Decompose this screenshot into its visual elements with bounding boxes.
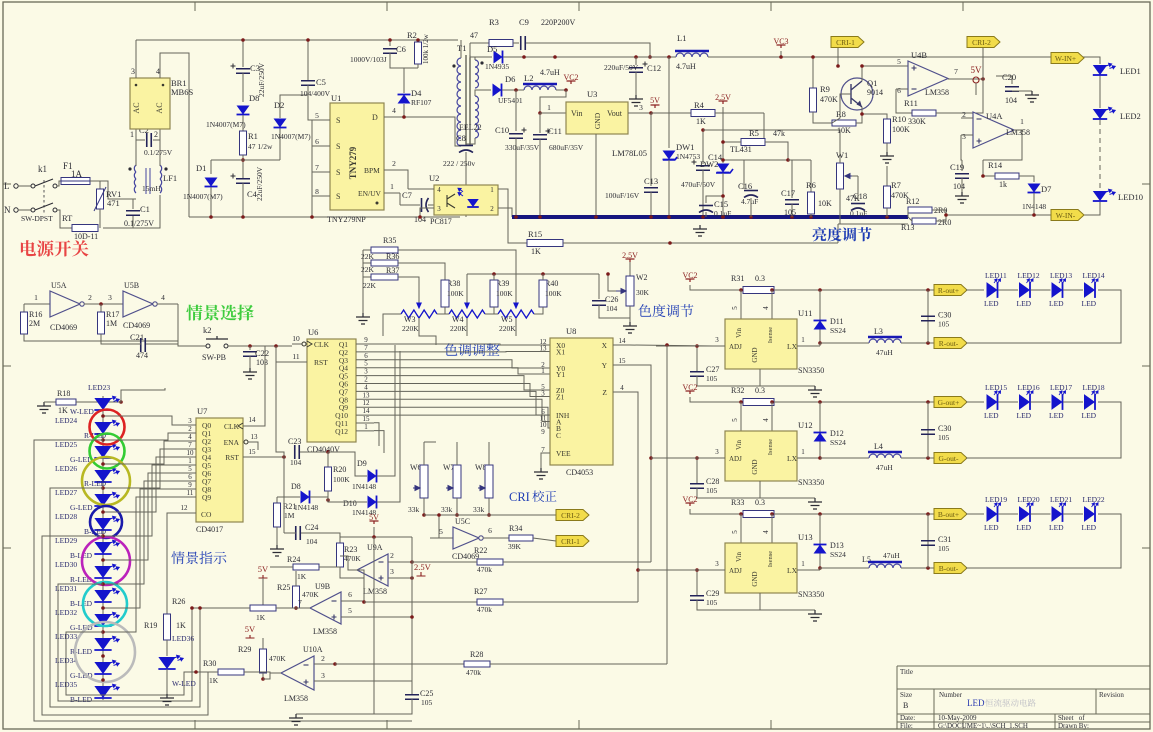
wire C26 down xyxy=(599,305,630,318)
svg-text:3: 3 xyxy=(715,448,719,456)
wire R24 out xyxy=(319,567,340,571)
wire rail to C5 xyxy=(307,40,309,81)
potentiometer W5 xyxy=(498,310,534,318)
svg-text:2M: 2M xyxy=(29,319,40,328)
wire LED11 link xyxy=(998,289,1018,291)
LED LED30 arrows xyxy=(109,563,119,572)
secondary ground bus xyxy=(512,215,908,219)
svg-text:VC2: VC2 xyxy=(682,271,697,280)
wire L3 to R-out- xyxy=(901,342,934,344)
wire W1 wiper out xyxy=(852,175,858,177)
wire R20 to D10 xyxy=(328,500,367,502)
svg-text:5: 5 xyxy=(897,57,901,66)
junction xyxy=(667,215,671,219)
wire R38 to pots xyxy=(444,307,446,314)
junction xyxy=(818,512,822,516)
svg-text:CRI-1: CRI-1 xyxy=(836,38,855,47)
junction xyxy=(306,38,310,42)
wire D13 branch xyxy=(819,514,821,570)
wire D2 to C5 node xyxy=(280,95,308,118)
svg-text:LED: LED xyxy=(984,411,999,420)
svg-text:10D-11: 10D-11 xyxy=(74,232,98,241)
junction chain tap xyxy=(101,510,105,514)
junction xyxy=(944,213,948,217)
svg-text:CO: CO xyxy=(201,510,212,519)
svg-text:47uH: 47uH xyxy=(883,551,900,560)
svg-text:U8: U8 xyxy=(566,326,576,336)
svg-text:UF5401: UF5401 xyxy=(498,96,523,105)
wire to R26 xyxy=(200,607,250,609)
svg-text:LED24: LED24 xyxy=(55,416,77,425)
svg-text:4: 4 xyxy=(762,418,770,422)
svg-text:TL431: TL431 xyxy=(730,145,752,154)
power 2.5V ref xyxy=(719,101,728,104)
op-amp U9A signs xyxy=(379,561,384,563)
svg-text:Isense: Isense xyxy=(767,551,774,567)
capacitor C15 xyxy=(699,205,713,207)
svg-text:104: 104 xyxy=(606,304,618,313)
wire BR1 minus to bottom rail xyxy=(160,53,189,217)
svg-text:C7: C7 xyxy=(402,190,412,200)
zener DW1 xyxy=(663,151,676,160)
capacitor C13 xyxy=(644,188,658,193)
junction xyxy=(885,215,889,219)
wire gnd to R18 xyxy=(44,401,56,403)
resistor R15 xyxy=(527,240,563,247)
svg-text:B-LED: B-LED xyxy=(70,695,93,704)
svg-text:R1: R1 xyxy=(248,131,258,141)
svg-text:R19: R19 xyxy=(144,621,157,630)
wire to C16 xyxy=(743,160,745,189)
svg-text:R32: R32 xyxy=(731,386,744,395)
svg-text:5: 5 xyxy=(731,530,739,534)
LED LED26 arrows xyxy=(109,467,119,476)
svg-text:SN3350: SN3350 xyxy=(798,590,824,599)
svg-text:LED17: LED17 xyxy=(1050,383,1072,392)
inverter U5A xyxy=(50,291,80,317)
wire U7 Q4 xyxy=(186,456,196,458)
diode D7 xyxy=(1028,184,1041,193)
junction xyxy=(636,568,640,572)
svg-text:470k: 470k xyxy=(477,605,492,614)
capacitor C7 xyxy=(421,198,423,212)
wire C1 to N rail xyxy=(132,216,134,228)
wire 2.5V ref xyxy=(722,107,724,142)
wire U7 Q2 xyxy=(186,440,196,442)
svg-text:R11: R11 xyxy=(904,98,918,108)
svg-text:U9A: U9A xyxy=(367,543,383,552)
wire U8 X to U11 ADJ xyxy=(630,345,713,346)
junction xyxy=(721,215,725,219)
svg-text:R22: R22 xyxy=(474,546,487,555)
counter U7 CD4017 xyxy=(196,418,243,522)
svg-text:Q9: Q9 xyxy=(202,493,211,502)
capacitor C12 xyxy=(629,68,643,73)
wire LX to L4 xyxy=(820,457,869,459)
svg-text:GND: GND xyxy=(751,347,759,362)
wire rail to C3 xyxy=(242,40,244,67)
LED LED2 arrows xyxy=(1105,106,1115,115)
svg-text:3: 3 xyxy=(131,67,135,76)
wire chain tap to U7 xyxy=(103,473,186,560)
svg-text:100K: 100K xyxy=(496,289,513,298)
op-amp U4A xyxy=(973,112,1014,148)
wire R3 to C9 xyxy=(513,42,519,44)
svg-text:G-out-: G-out- xyxy=(939,454,959,463)
wire U7 Q9 xyxy=(186,496,196,498)
svg-text:4: 4 xyxy=(161,293,165,302)
LED LED31 arrows xyxy=(109,587,119,596)
wire L5 to B-out- xyxy=(901,567,934,569)
svg-text:R17: R17 xyxy=(106,310,119,319)
resistor R21 xyxy=(274,503,281,527)
wire F1 to LF1 xyxy=(90,181,136,199)
op-amp U4B xyxy=(908,61,948,96)
svg-text:1N4753: 1N4753 xyxy=(676,152,700,161)
svg-text:C1: C1 xyxy=(140,204,150,214)
svg-text:104: 104 xyxy=(290,458,302,467)
LED LED28 xyxy=(94,518,111,530)
ground U13 xyxy=(808,610,822,621)
wire k2 to counters xyxy=(275,346,277,446)
wire U7 ENA xyxy=(248,442,258,450)
svg-text:9: 9 xyxy=(364,336,368,344)
wire U6 Q12 xyxy=(356,430,374,432)
potentiometer W2 xyxy=(626,276,634,306)
wire R15 out xyxy=(563,242,838,244)
capacitor C9 xyxy=(521,36,526,50)
svg-text:220uF/50V: 220uF/50V xyxy=(604,63,639,72)
wire LED15 link xyxy=(998,401,1018,403)
wire rail to R2 xyxy=(417,40,419,42)
svg-text:471: 471 xyxy=(107,198,120,208)
svg-text:C5: C5 xyxy=(316,77,326,87)
svg-text:C12: C12 xyxy=(647,63,661,73)
junction xyxy=(739,512,743,516)
svg-text:U9B: U9B xyxy=(315,582,330,591)
wire U9A inv xyxy=(388,561,412,563)
resistor R1 xyxy=(240,131,247,155)
wire BR1 plus to rail xyxy=(135,40,137,78)
svg-text:100K: 100K xyxy=(545,289,562,298)
LED LED25 arrows xyxy=(109,443,119,452)
svg-text:D13: D13 xyxy=(830,541,844,550)
wire R40 to W5 xyxy=(534,307,543,314)
LED LED12 xyxy=(1019,282,1030,298)
diode D10 xyxy=(368,496,377,509)
resistor R23 xyxy=(337,543,344,567)
wire to R15 xyxy=(508,193,527,243)
svg-text:0.3: 0.3 xyxy=(755,386,765,395)
svg-text:5V: 5V xyxy=(245,624,256,634)
svg-text:CLK: CLK xyxy=(224,422,240,431)
inverter U5C xyxy=(453,527,479,549)
svg-text:R15: R15 xyxy=(528,229,542,239)
svg-text:R8: R8 xyxy=(836,109,846,119)
junction xyxy=(248,344,252,348)
svg-text:W1: W1 xyxy=(836,150,848,160)
junction xyxy=(649,215,653,219)
diode D6 xyxy=(493,84,502,97)
op-amp U4B signs xyxy=(912,66,917,71)
resistor R9 xyxy=(810,88,817,112)
wire C19 top xyxy=(961,160,963,171)
svg-text:3: 3 xyxy=(639,103,643,112)
wire U9A noninv xyxy=(388,577,412,579)
wire R36 to R38 xyxy=(398,263,445,280)
svg-text:U11: U11 xyxy=(798,308,812,318)
wire bus U6 to U8 xyxy=(374,344,550,345)
diode D8 xyxy=(237,106,250,115)
svg-text:CRI-2: CRI-2 xyxy=(972,38,991,47)
junction xyxy=(522,55,526,59)
ground C22 xyxy=(243,368,257,379)
wire C24 to R23 xyxy=(301,533,340,543)
caption 色度调节 xyxy=(638,304,693,317)
caption 亮度调节 xyxy=(813,227,872,241)
svg-text:13: 13 xyxy=(363,391,371,399)
counter U6 clk wedge xyxy=(307,341,312,347)
svg-text:474: 474 xyxy=(136,351,148,360)
potentiometer W1 wiper xyxy=(845,174,852,179)
wire D12 branch xyxy=(819,402,821,458)
svg-text:Vin: Vin xyxy=(735,551,743,562)
wire U1 drain xyxy=(384,117,461,146)
wire to C8 xyxy=(466,138,475,144)
wire to R14 xyxy=(983,175,995,177)
junction xyxy=(926,566,930,570)
capacitor C26 xyxy=(592,301,606,306)
svg-text:22uF/250V: 22uF/250V xyxy=(257,62,266,97)
svg-text:4.7uH: 4.7uH xyxy=(676,62,696,71)
svg-text:RST: RST xyxy=(225,453,239,462)
wire U7 Q6 xyxy=(186,472,196,474)
svg-text:2: 2 xyxy=(392,159,396,168)
junction xyxy=(606,272,610,276)
svg-text:105: 105 xyxy=(784,208,796,217)
counter U7 clk wedge xyxy=(238,423,243,429)
wire C27 column xyxy=(696,346,698,372)
svg-text:RF107: RF107 xyxy=(411,98,432,107)
shunt DW2 bar xyxy=(716,169,733,173)
wire DW2 down xyxy=(722,173,724,217)
svg-text:6: 6 xyxy=(897,86,901,95)
junction xyxy=(492,272,496,276)
bridge rectifier BR1 xyxy=(130,78,170,129)
junction xyxy=(695,456,699,460)
svg-text:L2: L2 xyxy=(524,73,533,83)
power 5V bar U9B xyxy=(259,575,268,578)
switch k1 xyxy=(31,184,35,188)
svg-text:LED15: LED15 xyxy=(985,383,1007,392)
LED LED14 arrows xyxy=(1090,276,1099,285)
wire C21 to loop xyxy=(101,341,141,344)
svg-text:C13: C13 xyxy=(644,176,658,186)
svg-text:2: 2 xyxy=(364,376,368,384)
svg-text:100K: 100K xyxy=(447,289,464,298)
port G-out- xyxy=(934,453,967,464)
op-amp U9A xyxy=(357,554,388,586)
LED LED23 arrows xyxy=(109,395,119,404)
svg-text:RST: RST xyxy=(314,358,328,367)
LED LED1 arrows xyxy=(1105,62,1115,71)
op-amp U9B signs xyxy=(332,600,337,602)
svg-text:CD4069: CD4069 xyxy=(123,321,150,330)
capacitor C27 xyxy=(690,372,704,377)
resistor R6 xyxy=(808,192,815,214)
svg-text:2: 2 xyxy=(390,551,394,560)
resistor R16 xyxy=(21,312,28,334)
wire 2.5V to W2 xyxy=(629,262,631,276)
LED LED14 xyxy=(1084,282,1095,298)
wire GND U12 xyxy=(760,481,815,498)
svg-text:100K: 100K xyxy=(892,125,910,134)
svg-text:10K: 10K xyxy=(837,126,851,135)
wire chain tap to U7 xyxy=(103,449,186,488)
wire U1 ENUV xyxy=(384,192,400,194)
svg-text:47 1/2w: 47 1/2w xyxy=(248,142,273,151)
junction chain tap xyxy=(101,462,105,466)
svg-text:L3: L3 xyxy=(874,327,883,336)
wire CRI-1 drop xyxy=(837,46,839,66)
regulator U12 SN3350 xyxy=(725,431,797,481)
capacitor C31 xyxy=(921,541,935,546)
LED LED21 xyxy=(1052,506,1063,522)
wire LF1 to BR1 pin2 xyxy=(159,129,161,166)
LED LED33 xyxy=(94,638,111,650)
junction xyxy=(668,241,672,245)
svg-text:104: 104 xyxy=(1005,96,1017,105)
svg-text:2: 2 xyxy=(490,205,494,213)
svg-text:Drawn By:: Drawn By: xyxy=(1058,722,1089,730)
resistor R35 xyxy=(371,247,398,253)
svg-text:EEL22: EEL22 xyxy=(459,123,482,132)
junction chain tap xyxy=(101,654,105,658)
wire R14 to D7 xyxy=(1019,176,1034,182)
schottky D11 xyxy=(814,321,827,330)
svg-text:T1: T1 xyxy=(457,43,466,53)
wire Q1 emitter to R10 xyxy=(862,107,887,119)
svg-text:Vin: Vin xyxy=(571,109,583,118)
wire G-LED return loop xyxy=(42,536,208,715)
svg-text:LED: LED xyxy=(984,523,999,532)
wire k1 to RT xyxy=(57,210,73,228)
svg-text:C24: C24 xyxy=(305,523,318,532)
svg-text:D9: D9 xyxy=(357,459,367,468)
op-amp U10A xyxy=(281,656,314,690)
wire top DC rail xyxy=(136,39,458,41)
LED LED29 arrows xyxy=(109,539,119,548)
wire ref to R6 xyxy=(788,159,811,161)
svg-text:LED13: LED13 xyxy=(1050,271,1072,280)
junction xyxy=(422,513,426,517)
svg-text:CRI: CRI xyxy=(509,490,530,504)
junction xyxy=(926,288,930,292)
svg-text:3: 3 xyxy=(715,560,719,568)
svg-text:5V: 5V xyxy=(258,564,269,574)
svg-text:Vout: Vout xyxy=(607,109,623,118)
wire R32 to G-out+ xyxy=(774,401,934,403)
svg-text:2R0: 2R0 xyxy=(938,218,951,227)
wire R33 right to Isense xyxy=(771,514,773,543)
junction xyxy=(410,615,414,619)
svg-text:1N4148: 1N4148 xyxy=(294,503,318,512)
potentiometer W3 wiper xyxy=(417,303,421,308)
op-amp U9B xyxy=(310,592,341,624)
wire U7 Q5 xyxy=(186,464,196,466)
power 2.5V W2 xyxy=(626,259,635,262)
wire R17 down xyxy=(100,334,102,341)
svg-text:5: 5 xyxy=(315,111,319,120)
svg-text:LX: LX xyxy=(787,566,798,575)
wire W4 wiper xyxy=(466,274,468,303)
svg-text:R9: R9 xyxy=(820,84,830,94)
junction xyxy=(770,288,774,292)
wire U5B out xyxy=(157,303,178,305)
transformer T1 secondary lower xyxy=(475,96,479,103)
wire U6 Q5 xyxy=(356,375,374,377)
capacitor C5 xyxy=(301,81,315,86)
svg-text:LED: LED xyxy=(984,299,999,308)
LED LED1 xyxy=(1093,65,1107,75)
junction xyxy=(99,302,103,306)
wire VC2 to R31 xyxy=(690,285,743,290)
svg-text:R24: R24 xyxy=(287,555,300,564)
svg-text:C17: C17 xyxy=(781,188,795,198)
svg-text:W-LED: W-LED xyxy=(172,679,196,688)
svg-text:Vin: Vin xyxy=(735,327,743,338)
wire W7 bottom xyxy=(456,498,458,515)
svg-text:R26: R26 xyxy=(172,597,185,606)
svg-text:R-out+: R-out+ xyxy=(938,286,959,295)
wire to U5C xyxy=(438,515,440,538)
ground C20 xyxy=(1025,91,1039,102)
svg-text:LED11: LED11 xyxy=(985,271,1007,280)
svg-text:LED21: LED21 xyxy=(1050,495,1072,504)
svg-text:D7: D7 xyxy=(1041,184,1051,194)
wire node to D2 xyxy=(243,159,280,161)
svg-text:0.1uF: 0.1uF xyxy=(850,209,867,218)
wire R31 to R-out+ xyxy=(774,289,934,291)
svg-text:0.1/275V: 0.1/275V xyxy=(124,219,154,228)
svg-text:L4: L4 xyxy=(874,442,883,451)
junction xyxy=(241,38,245,42)
svg-text:5V: 5V xyxy=(650,96,660,105)
resistor R30 xyxy=(218,669,244,675)
wire ADJ U11 xyxy=(656,345,725,347)
capacitor C6 xyxy=(383,49,397,54)
LED LED19 xyxy=(987,506,998,522)
wire C18 top xyxy=(857,176,859,201)
svg-text:R33: R33 xyxy=(731,498,744,507)
LED LED24 xyxy=(94,422,111,434)
svg-text:R18: R18 xyxy=(57,389,70,398)
wire U1 BPM to U2 xyxy=(408,188,434,190)
junction xyxy=(538,111,542,115)
svg-text:100K: 100K xyxy=(333,475,350,484)
LED LED27 xyxy=(94,494,111,506)
svg-text:ADJ: ADJ xyxy=(729,343,742,351)
wire bus U6 to U8 xyxy=(374,415,554,435)
wire GND U11 xyxy=(760,369,815,386)
LED LED26 xyxy=(94,470,111,482)
wire ADJ U12 xyxy=(668,457,725,459)
transformer T1 secondary upper xyxy=(475,60,479,67)
wire R19 to LED36 xyxy=(166,640,168,656)
resistor R33 xyxy=(743,511,774,518)
wire LED19 link xyxy=(998,513,1018,515)
capacitor C8 xyxy=(459,145,473,147)
